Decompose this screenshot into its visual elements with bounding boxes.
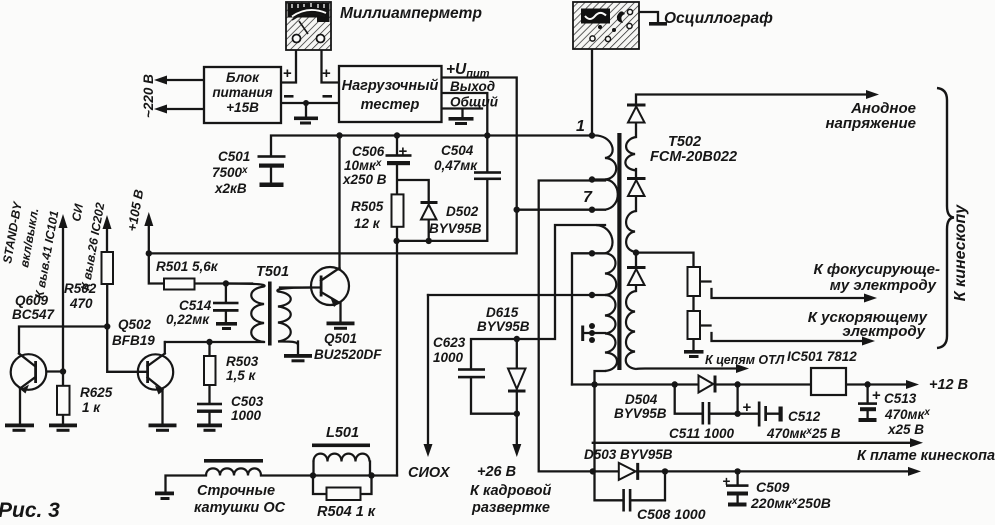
svg-text:1,5 к: 1,5 к	[226, 368, 257, 383]
svg-text:+Uпит: +Uпит	[446, 61, 490, 80]
svg-text:R504 1 к: R504 1 к	[317, 504, 376, 520]
svg-text:Рис. 3: Рис. 3	[0, 499, 60, 522]
svg-text:FCM-20В022: FCM-20В022	[650, 149, 737, 165]
svg-text:C504: C504	[441, 143, 474, 158]
svg-text:470: 470	[69, 296, 93, 311]
svg-text:7500х: 7500х	[212, 165, 248, 180]
svg-text:BC547: BC547	[12, 307, 56, 322]
svg-text:Q501: Q501	[324, 331, 357, 346]
svg-text:Выход: Выход	[450, 79, 495, 94]
svg-text:Q502: Q502	[118, 317, 152, 332]
svg-text:тестер: тестер	[361, 97, 420, 113]
svg-text:1000: 1000	[433, 350, 464, 365]
svg-text:развертке: развертке	[471, 500, 550, 516]
svg-text:К плате кинескопа: К плате кинескопа	[857, 448, 995, 464]
svg-text:R502: R502	[64, 281, 97, 296]
svg-text:0,47мк: 0,47мк	[434, 158, 478, 173]
svg-text:СИОХ: СИОХ	[408, 465, 451, 481]
svg-text:+: +	[872, 387, 881, 404]
svg-text:470мкх25 В: 470мкх25 В	[766, 426, 841, 441]
svg-text:0,22мк: 0,22мк	[166, 312, 210, 327]
svg-text:C503: C503	[231, 394, 264, 409]
svg-text:C513: C513	[884, 391, 917, 406]
svg-text:Q609: Q609	[15, 293, 49, 308]
svg-text:+26 В: +26 В	[477, 464, 516, 480]
svg-text:IC501 7812: IC501 7812	[787, 349, 857, 364]
svg-text:C501: C501	[218, 149, 250, 164]
svg-text:D504: D504	[625, 392, 658, 407]
svg-text:7: 7	[583, 189, 593, 206]
svg-text:C506: C506	[352, 144, 385, 159]
svg-text:BYV95В: BYV95В	[477, 319, 530, 334]
svg-text:L501: L501	[326, 425, 359, 441]
svg-text:D502: D502	[446, 204, 479, 219]
svg-text:C511 1000: C511 1000	[669, 426, 735, 441]
svg-text:Строчные: Строчные	[197, 483, 275, 499]
svg-text:+: +	[723, 474, 731, 489]
svg-text:C514: C514	[179, 298, 212, 313]
svg-text:D503 BYV95В: D503 BYV95В	[584, 447, 673, 462]
svg-text:+15В: +15В	[226, 100, 259, 115]
svg-text:C623: C623	[433, 335, 466, 350]
svg-text:+12 В: +12 В	[929, 377, 968, 393]
svg-text:Общий: Общий	[450, 95, 499, 110]
svg-text:R625: R625	[80, 385, 113, 400]
svg-text:К фокусирующе-: К фокусирующе-	[813, 261, 940, 278]
svg-text:~220 В: ~220 В	[141, 74, 156, 118]
svg-text:470мкх: 470мкх	[884, 407, 930, 422]
svg-text:Блок: Блок	[226, 70, 260, 85]
svg-text:T501: T501	[256, 264, 289, 280]
svg-text:катушки ОС: катушки ОС	[194, 500, 286, 516]
svg-text:BFB19: BFB19	[112, 333, 155, 348]
svg-text:D615: D615	[486, 305, 519, 320]
svg-text:напряжение: напряжение	[825, 115, 916, 132]
svg-text:СИ: СИ	[69, 203, 86, 223]
svg-text:К кадровой: К кадровой	[470, 483, 551, 499]
svg-text:R503: R503	[226, 354, 259, 369]
svg-text:+: +	[743, 399, 752, 416]
svg-text:+105 В: +105 В	[124, 188, 146, 232]
svg-text:х25 В: х25 В	[887, 422, 924, 437]
svg-text:BU2520DF: BU2520DF	[314, 347, 382, 362]
svg-text:1 к: 1 к	[82, 400, 101, 415]
svg-text:+: +	[322, 65, 331, 82]
svg-text:T502: T502	[668, 134, 701, 150]
svg-text:К цепям ОТЛ: К цепям ОТЛ	[705, 353, 785, 367]
svg-text:R505: R505	[351, 199, 384, 214]
svg-text:х250 В: х250 В	[342, 172, 387, 187]
svg-text:Осциллограф: Осциллограф	[664, 10, 773, 27]
svg-text:C512: C512	[788, 409, 821, 424]
svg-text:C509: C509	[756, 479, 790, 495]
svg-text:R501 5,6к: R501 5,6к	[156, 259, 219, 274]
svg-text:му электроду: му электроду	[830, 277, 937, 294]
svg-text:C508 1000: C508 1000	[637, 506, 706, 522]
svg-text:BYV95В: BYV95В	[429, 221, 482, 236]
svg-text:питания: питания	[212, 85, 272, 100]
svg-text:12 к: 12 к	[354, 216, 381, 231]
svg-text:BYV95В: BYV95В	[614, 406, 667, 421]
svg-text:электроду: электроду	[842, 323, 925, 340]
svg-text:К кинескопу: К кинескопу	[952, 204, 969, 301]
svg-text:+: +	[283, 65, 292, 82]
svg-text:1: 1	[576, 118, 585, 135]
svg-text:Нагрузочный: Нагрузочный	[342, 78, 439, 94]
svg-text:Миллиамперметр: Миллиамперметр	[340, 5, 482, 22]
svg-text:220мкх250В: 220мкх250В	[750, 495, 831, 511]
svg-text:1000: 1000	[231, 408, 262, 423]
svg-text:+: +	[399, 143, 408, 160]
svg-text:10мкх: 10мкх	[344, 158, 382, 173]
svg-text:х2кВ: х2кВ	[214, 181, 247, 196]
